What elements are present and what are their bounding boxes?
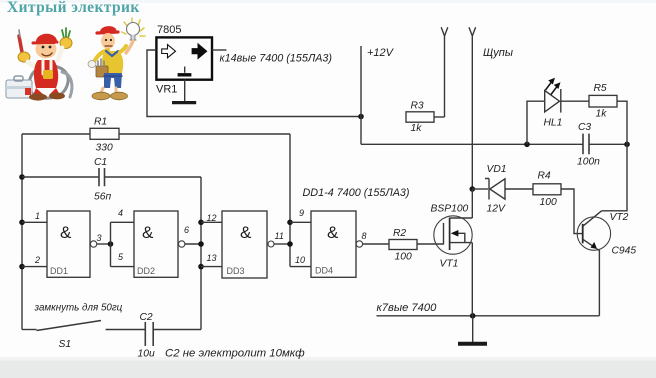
node N2 pin12 [198, 220, 204, 226]
wire LED to R5 [561, 100, 589, 102]
gate DD1 [47, 211, 97, 277]
svg-text:1: 1 [35, 211, 40, 221]
zener diode VD1 [485, 179, 505, 200]
wire left rail [21, 134, 23, 330]
wire C2 to N2 [153, 329, 201, 331]
svg-text:6: 6 [184, 225, 189, 235]
resistor R4 [533, 184, 561, 195]
svg-text:100: 100 [540, 197, 557, 208]
svg-text:56п: 56п [94, 192, 111, 203]
svg-text:3: 3 [97, 233, 102, 243]
svg-text:C945: C945 [612, 246, 637, 257]
svg-text:R1: R1 [94, 117, 107, 128]
svg-text:R4: R4 [538, 171, 551, 182]
wire 7805 output stub [212, 49, 227, 51]
resistor R3 [406, 112, 434, 122]
svg-text:&: & [327, 223, 339, 242]
svg-text:замкнуть для 50гц: замкнуть для 50гц [34, 303, 123, 314]
wire R1 feedback drop [289, 134, 291, 267]
svg-text:1k: 1k [596, 109, 608, 120]
wire R1 top run [22, 133, 290, 135]
switch S1 [22, 321, 145, 331]
cartoon electrician 2 [88, 18, 145, 100]
node N2 pin13 [198, 264, 204, 270]
wire VD1 anode lead [472, 188, 488, 190]
svg-text:10: 10 [295, 255, 305, 265]
node N2 pin6 [198, 241, 204, 247]
svg-text:DD4: DD4 [315, 266, 333, 276]
svg-text:Щупы: Щупы [483, 47, 513, 59]
wire DD4 pin10 [290, 266, 311, 268]
svg-text:10и: 10и [138, 349, 155, 360]
svg-text:VR1: VR1 [156, 84, 177, 96]
wire DD1 pin2 [22, 266, 47, 268]
wire VT2 emitter down [597, 249, 600, 316]
svg-text:100n: 100n [577, 157, 600, 168]
wire bottom rail [377, 315, 600, 317]
MOSFET VT1 (BSP100) [434, 216, 473, 254]
wire VD1 to R4 [505, 188, 533, 190]
svg-text:R2: R2 [393, 228, 406, 239]
svg-text:100: 100 [395, 252, 412, 263]
svg-text:C1: C1 [94, 157, 107, 168]
svg-text:9: 9 [299, 208, 304, 218]
svg-text:330: 330 [96, 143, 113, 154]
ground [458, 316, 487, 344]
wire DD3 pin12 [201, 221, 222, 223]
wire VT2 collector to C3 node [602, 144, 627, 211]
ground (below VR1) [172, 80, 196, 103]
node LED branch right [624, 142, 630, 148]
wire N2 vertical [200, 177, 202, 330]
svg-text:13: 13 [207, 253, 217, 263]
wire DD1 pin1 [22, 221, 47, 223]
wire 7805 input to +12V rail [147, 50, 361, 117]
wire DD4 output to R2 [363, 243, 389, 245]
transistor VT2 (C945) [577, 211, 610, 251]
wire DD4 pin9 [290, 221, 311, 223]
probe 1 [441, 27, 448, 117]
svg-text:R3: R3 [411, 101, 424, 112]
svg-text:DD2: DD2 [137, 266, 155, 276]
cartoon electrician 1 [6, 28, 72, 101]
svg-text:12: 12 [207, 213, 217, 223]
svg-text:&: & [60, 223, 72, 242]
wire VT1 source to bottom rail [471, 243, 473, 316]
wire DD3 pin11 [274, 243, 290, 245]
svg-text:C3: C3 [578, 122, 591, 133]
wire R3 to probe 1 [434, 116, 445, 118]
svg-text:DD1: DD1 [50, 266, 68, 276]
wire second rail to LED/C3 nodes [361, 143, 627, 145]
node C1 left [19, 174, 25, 180]
node DD1 out [108, 241, 114, 247]
wire gate lead [417, 243, 444, 245]
svg-text:HL1: HL1 [544, 118, 563, 129]
wire R5 right riser [617, 101, 627, 144]
node DD1 pin2 [19, 264, 25, 270]
svg-text:Хитрый электрик: Хитрый электрик [7, 0, 140, 16]
svg-text:к14вые 7400 (155ЛА3): к14вые 7400 (155ЛА3) [220, 53, 333, 65]
wire LED branch left riser [527, 101, 545, 144]
gate DD4 [311, 211, 363, 277]
svg-text:11: 11 [275, 231, 284, 241]
svg-text:8: 8 [362, 231, 367, 241]
resistor R2 [389, 240, 417, 250]
wire DD3 pin13 [201, 266, 222, 268]
gate DD3 [222, 211, 274, 278]
svg-text:1k: 1k [411, 123, 423, 134]
voltage regulator VR1 (7805) [156, 37, 212, 79]
node VD1 junction [470, 186, 476, 192]
wire DD2 input bracket [111, 222, 135, 266]
node DD1 pin1 [19, 220, 25, 226]
svg-text:2: 2 [34, 255, 40, 265]
capacitor C2 [145, 322, 153, 346]
node LED branch left [524, 142, 530, 148]
node R1 pin11 [287, 241, 293, 247]
node junction +12V rail [358, 114, 364, 120]
svg-text:S1: S1 [59, 339, 72, 350]
svg-text:VT1: VT1 [440, 259, 459, 270]
wire DD1 pin3 [97, 243, 111, 245]
svg-text:VD1: VD1 [487, 164, 507, 175]
svg-text:4: 4 [118, 208, 123, 218]
svg-text:&: & [142, 223, 154, 242]
wire probe2 down to MOSFET drain [471, 189, 473, 218]
svg-text:C2: C2 [140, 312, 153, 323]
LED HL1 [545, 79, 561, 113]
capacitor C1 [99, 168, 105, 186]
svg-text:DD1-4 7400 (155ЛА3): DD1-4 7400 (155ЛА3) [303, 187, 410, 199]
resistor R5 [589, 95, 617, 107]
capacitor C3 [583, 134, 589, 155]
svg-text:к7вые 7400: к7вые 7400 [377, 302, 438, 314]
svg-text:&: & [240, 223, 252, 242]
node R1 pin9 [287, 220, 293, 226]
svg-text:DD3: DD3 [227, 266, 245, 276]
svg-text:12V: 12V [487, 204, 506, 215]
svg-text:VT2: VT2 [610, 212, 629, 223]
svg-text:BSP100: BSP100 [431, 204, 469, 215]
probe 2 [469, 27, 476, 189]
resistor R1 [90, 128, 119, 139]
wire R4 to VT2 base [561, 189, 583, 234]
node ground junction [470, 313, 476, 319]
svg-text:С2 не электролит 10мкф: С2 не электролит 10мкф [165, 348, 305, 360]
svg-text:R5: R5 [594, 83, 607, 94]
svg-text:+12V: +12V [367, 47, 395, 59]
svg-text:7805: 7805 [157, 24, 181, 36]
gate DD2 [134, 211, 185, 277]
wire +12V vertical [360, 46, 362, 144]
wire C1 run [22, 176, 201, 178]
wire DD2 pin6 [185, 243, 201, 245]
